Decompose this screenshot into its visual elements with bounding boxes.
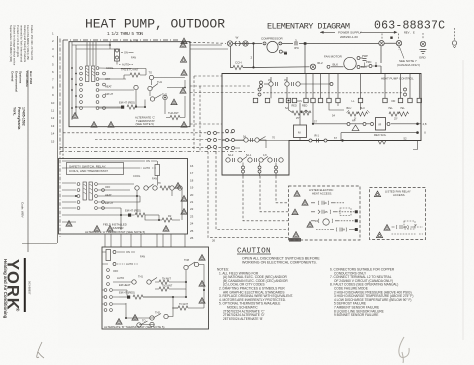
crankcase heater CCH	[231, 46, 310, 70]
thermostat B junction dots	[125, 281, 205, 319]
box2 cool contacts row	[133, 174, 182, 190]
svg-text:11: 11	[51, 109, 54, 113]
defrost relay contacts 5A	[226, 136, 267, 149]
fan relay connector 2R	[392, 221, 424, 234]
svg-text:Codes: 450 330 .20 York PA: Codes: 450 330 .20 York PA	[30, 25, 34, 60]
terminal 2 field	[243, 41, 248, 46]
electric heat accessory dashed box	[289, 186, 361, 240]
svg-text:COMPRESSOR: COMPRESSOR	[261, 36, 284, 40]
thermostat B box outline	[102, 247, 209, 329]
svg-text:17405-1592: 17405-1592	[22, 107, 26, 126]
svg-text:Heating and Air Conditioning: Heating and Air Conditioning	[3, 259, 8, 319]
svg-text:ON: ON	[124, 51, 128, 55]
safety switch box outline	[59, 159, 188, 235]
notes column 2	[330, 268, 413, 318]
margin note: supersedes	[9, 25, 34, 66]
svg-text:AUTO: AUTO	[122, 63, 129, 67]
svg-text:FAN: FAN	[140, 255, 145, 259]
caution body text	[242, 257, 320, 265]
svg-text:HEAT PUMP, OUTDOOR: HEAT PUMP, OUTDOOR	[85, 17, 225, 32]
terminals JN	[260, 79, 334, 88]
svg-text:R2: R2	[168, 214, 172, 218]
terminal L1	[379, 34, 384, 46]
fan relay accessory dashed box	[370, 188, 426, 240]
liquid line sensors BLU BLU	[347, 107, 370, 121]
svg-text:AUTO: AUTO	[126, 262, 133, 266]
thermostat C box outline	[69, 42, 190, 127]
svg-text:BLK: BLK	[333, 63, 339, 67]
svg-text:HEAT ACCESS.: HEAT ACCESS.	[312, 192, 332, 196]
box2 fan switch	[139, 159, 160, 181]
svg-text:Supersedes: 063-88837 (386): Supersedes: 063-88837 (386)	[9, 25, 13, 62]
svg-text:BLU: BLU	[347, 107, 352, 110]
svg-text:15: 15	[51, 139, 55, 143]
defrost sensors RED RED	[285, 103, 311, 120]
svg-text:EM HT: EM HT	[105, 201, 113, 205]
svg-text:REX SOL: REX SOL	[374, 133, 387, 137]
svg-text:Pennsylvania: Pennsylvania	[17, 107, 21, 129]
svg-text:HP: HP	[352, 119, 356, 123]
svg-text:Central: Central	[11, 71, 15, 82]
faint fold line right	[462, 60, 464, 340]
svg-text:OFF: OFF	[105, 185, 111, 189]
svg-text:063-88837: 063-88837	[28, 281, 32, 295]
wire 70	[222, 136, 289, 141]
svg-text:25: 25	[190, 229, 194, 233]
thermostat contact TH1	[134, 80, 163, 91]
svg-text:26: 26	[190, 236, 194, 240]
thermostat C warning triangles	[72, 42, 187, 128]
warning triangle on bus	[181, 38, 187, 44]
electric heat triangles	[292, 191, 313, 238]
thermostat C junction dots	[71, 44, 186, 109]
svg-text:IR-2: IR-2	[317, 61, 323, 65]
lower terminal pairs	[242, 163, 278, 177]
svg-text:9 BONNET SENSOR FAILURE: 9 BONNET SENSOR FAILURE	[334, 313, 378, 317]
defrost thermostat TO	[149, 71, 154, 80]
svg-text:Box 1592: Box 1592	[29, 71, 33, 85]
svg-text:GRD: GRD	[419, 56, 427, 60]
svg-text:EM HT (RED): EM HT (RED)	[119, 101, 135, 105]
svg-text:Subject to change without noti: Subject to change without notice	[13, 25, 17, 66]
svg-text:D/S: D/S	[298, 99, 303, 103]
svg-text:15: 15	[315, 219, 319, 223]
compressor motor	[261, 36, 284, 53]
svg-text:AUTO: AUTO	[143, 166, 150, 170]
svg-text:PWP: PWP	[362, 54, 368, 58]
terminal L2	[396, 34, 401, 46]
wire stubs below control box	[413, 141, 418, 150]
svg-text:AUTO: AUTO	[117, 276, 124, 280]
thermostat B switch bank	[104, 269, 112, 312]
svg-text:10: 10	[51, 101, 55, 105]
svg-text:HEAT: HEAT	[105, 193, 112, 197]
anticipator TH2 ANT	[166, 111, 185, 120]
notes column 1	[217, 268, 293, 321]
thermostat C label	[135, 116, 155, 127]
svg-text:ACCESS.: ACCESS.	[393, 193, 406, 197]
switch row 5A-2 5A-1 4R	[226, 154, 283, 162]
svg-text:Post Office: Post Office	[25, 71, 29, 87]
svg-text:YEL: YEL	[388, 107, 393, 110]
thermostat B TO contact	[137, 319, 154, 328]
field wiring dashed rows 13-15	[60, 76, 288, 238]
svg-text:2H: 2H	[342, 228, 346, 232]
svg-text:FAN: FAN	[152, 177, 157, 181]
field installed jumper label	[103, 223, 127, 231]
svg-text:25°: 25°	[296, 117, 300, 120]
svg-text:22: 22	[190, 207, 194, 211]
thermostat contact TH2	[150, 93, 167, 102]
svg-text:1 1/2 THRU 5 TON: 1 1/2 THRU 5 TON	[107, 31, 143, 37]
thermostat C fan relay	[115, 49, 137, 67]
svg-text:4,8: 4,8	[263, 154, 267, 157]
extension terminals rows	[226, 130, 241, 150]
wire L1 main line	[233, 42, 396, 44]
capacitor PWP	[360, 54, 381, 69]
anticipator TO ANT	[172, 303, 198, 310]
electric heat connector row 19	[311, 201, 344, 205]
caution heading	[237, 248, 271, 256]
svg-text:HEAT PUMP CONTROL: HEAT PUMP CONTROL	[381, 77, 414, 81]
svg-text:EM HT: EM HT	[105, 92, 113, 96]
margin note: address	[11, 71, 34, 129]
junction dot W	[390, 37, 392, 39]
svg-text:HEAT: HEAT	[105, 85, 112, 89]
svg-text:12: 12	[51, 116, 55, 120]
wire down from terminal 2	[253, 43, 255, 67]
svg-text:RED: RED	[302, 105, 307, 108]
svg-text:TH2: TH2	[155, 311, 160, 315]
svg-text:TH2 ANT: TH2 ANT	[168, 111, 179, 115]
left margin column rules	[22, 36, 58, 252]
svg-text:20: 20	[190, 193, 194, 197]
svg-text:ALTERNATE ‘B’ THERMOSTAT (SEE: ALTERNATE ‘B’ THERMOSTAT (SEE NOTE 5)	[104, 325, 164, 329]
svg-text:CCH: CCH	[235, 61, 242, 65]
ink smudge	[289, 238, 301, 242]
svg-text:Code: WBV: Code: WBV	[21, 202, 25, 218]
box2 em ht light and resistor	[123, 209, 159, 218]
svg-text:POWER SUPPLY: POWER SUPPLY	[338, 30, 362, 34]
safety switch box outer dashed	[60, 151, 245, 237]
wire U with rex line	[341, 131, 426, 142]
svg-text:EM HEAT: EM HEAT	[119, 283, 131, 287]
svg-text:52: 52	[404, 137, 408, 141]
box2 internal wires	[62, 161, 182, 230]
ambient sensors YEL YEL	[388, 107, 409, 121]
svg-text:TO: TO	[149, 71, 153, 75]
svg-text:Systems: Systems	[19, 71, 23, 84]
field wiring dash-dot bus (top)	[60, 39, 226, 151]
wire 54	[329, 103, 361, 110]
junction node	[252, 42, 254, 44]
svg-text:23: 23	[190, 214, 194, 218]
wire 57 with HP switch	[312, 103, 368, 131]
svg-text:TH1 & TO ANT: TH1 & TO ANT	[121, 68, 139, 72]
relay coil IR	[368, 118, 418, 131]
YORK logo	[3, 258, 32, 319]
system switch bank	[80, 66, 114, 109]
left vertical bus wires	[62, 40, 64, 159]
svg-text:ON: ON	[146, 159, 150, 163]
control box top feed wires	[271, 74, 419, 99]
reversing valve solenoid REX SOL	[374, 133, 407, 144]
svg-text:COILS, AND THERMOSTAT: COILS, AND THERMOSTAT	[69, 169, 108, 173]
svg-text:TH1: TH1	[138, 275, 143, 279]
defrost thermostat TO8	[184, 258, 199, 270]
svg-text:York,: York,	[13, 107, 17, 116]
wire fan to L1 terminal	[380, 46, 382, 73]
svg-text:W: W	[236, 36, 239, 40]
thermostat C internal wires	[72, 42, 185, 120]
svg-text:FAN MOTOR: FAN MOTOR	[324, 55, 343, 59]
thermostat B wires	[102, 252, 204, 325]
box2 to box3 connector wires	[105, 234, 185, 247]
svg-text:2ET670024 ALTERNATE ‘B’: 2ET670024 ALTERNATE ‘B’	[223, 317, 263, 321]
svg-text:13: 13	[51, 124, 55, 128]
safety switch label box	[67, 163, 124, 175]
svg-text:24: 24	[190, 222, 194, 226]
ground terminal GRD	[419, 33, 427, 60]
svg-text:19: 19	[324, 201, 328, 205]
svg-text:208/230-1-60: 208/230-1-60	[340, 35, 358, 39]
svg-text:WORKING ON ELECTRICAL COMPONEN: WORKING ON ELECTRICAL COMPONENTS.	[242, 261, 317, 265]
svg-text:25°: 25°	[394, 118, 398, 121]
svg-text:5A: 5A	[285, 107, 288, 110]
pencil scribble bottom right	[399, 337, 409, 363]
electric heat connector row 2H	[316, 228, 355, 232]
svg-text:17: 17	[190, 171, 194, 175]
fan motor	[324, 55, 360, 70]
svg-text:RED: RED	[292, 105, 297, 108]
svg-text:14: 14	[51, 132, 55, 136]
svg-text:REV. E: REV. E	[404, 32, 415, 35]
note: see note 7 canada only	[397, 47, 420, 67]
svg-text:19: 19	[190, 186, 194, 190]
power supply arrow and label	[320, 30, 398, 38]
svg-text:reserved by York International: reserved by York International	[19, 25, 23, 62]
electric heat connector row 15	[311, 219, 355, 225]
svg-text:COOL: COOL	[133, 174, 141, 178]
wire L2 drop	[398, 46, 400, 50]
svg-text:BRN: BRN	[361, 65, 367, 69]
anticipator TH1 & TO ANT	[121, 68, 146, 78]
title: heat pump outdoor	[85, 17, 225, 38]
svg-text:26: 26	[212, 239, 216, 243]
svg-text:18: 18	[190, 178, 194, 182]
emergency heat light EM HT (RED)	[117, 101, 146, 110]
thermostat B em ht	[119, 291, 173, 300]
svg-text:4,8: 4,8	[423, 122, 427, 126]
thermostat B TH2 contact	[150, 311, 168, 321]
internal dashed terminal row	[258, 88, 407, 96]
svg-text:(CANADA ONLY): (CANADA ONLY)	[397, 63, 420, 67]
svg-text:16: 16	[190, 164, 194, 168]
svg-text:PRC: PRC	[366, 60, 372, 64]
wire down from IPC node	[304, 45, 306, 74]
svg-text:IR-1: IR-1	[314, 134, 319, 138]
fan relay triangles	[374, 191, 390, 238]
svg-text:U: U	[424, 131, 426, 135]
svg-text:5A-2: 5A-2	[228, 154, 234, 157]
row numbers 1-15	[51, 32, 55, 144]
svg-text:DD: DD	[392, 99, 396, 103]
svg-text:TO: TO	[142, 319, 146, 323]
svg-text:TH ANT: TH ANT	[162, 278, 171, 281]
thermostat B fan switch	[106, 250, 145, 267]
plug connector	[235, 41, 240, 46]
svg-text:TO8: TO8	[184, 258, 190, 262]
svg-text:EM HT (RED): EM HT (RED)	[125, 209, 141, 213]
row numbers 16-26	[190, 164, 194, 240]
thermostat B TH1 contact	[132, 275, 157, 285]
terminal squares row	[253, 98, 421, 103]
capacitor IPC	[283, 39, 300, 55]
relay contact IR-2	[310, 61, 343, 70]
box2 R2 resistor	[159, 214, 180, 222]
wires from thermostat top to bus	[131, 40, 228, 49]
terminal 1 field	[227, 41, 232, 46]
box2 junction dots	[75, 195, 160, 221]
svg-text:Printed in U.S.A. All rights: Printed in U.S.A. All rights	[16, 25, 20, 58]
box2 relay coil bank	[77, 182, 113, 209]
box2 warning triangles	[66, 183, 187, 232]
node 4,8	[416, 122, 427, 126]
svg-text:YEL: YEL	[400, 107, 405, 110]
svg-text:2R: 2R	[404, 225, 408, 229]
plug connectors left of control box	[208, 132, 217, 149]
svg-text:Form 063-88837 (1094) 450: Form 063-88837 (1094) 450	[26, 25, 30, 60]
svg-text:Environmental: Environmental	[15, 71, 19, 92]
thermostat B warning triangles	[116, 255, 205, 325]
svg-text:(SEE NOTE 5): (SEE NOTE 5)	[136, 122, 154, 126]
svg-text:IR: IR	[379, 123, 382, 127]
heat pump control box outline	[222, 74, 421, 176]
relay contact IR-1 on bottom line	[309, 134, 337, 143]
svg-text:Heating and Cooling Products: Heating and Cooling Products	[23, 25, 27, 63]
svg-text:OFF: OFF	[113, 269, 119, 273]
svg-text:21: 21	[190, 200, 194, 204]
svg-text:IPC: IPC	[294, 46, 300, 50]
pencil scribble bottom left	[37, 342, 44, 358]
anticipators TH ANT	[155, 278, 175, 292]
svg-text:FAN: FAN	[131, 56, 136, 60]
junction node after IPC	[304, 42, 307, 45]
svg-text:HI: HI	[158, 182, 161, 185]
svg-text:25: 25	[325, 210, 329, 214]
thermostat B mode labels	[113, 269, 131, 287]
svg-text:ON: ON	[126, 250, 130, 254]
electric heat connector row 25	[311, 208, 355, 216]
contactor coil M	[294, 103, 307, 141]
spare terminal right	[452, 28, 456, 48]
